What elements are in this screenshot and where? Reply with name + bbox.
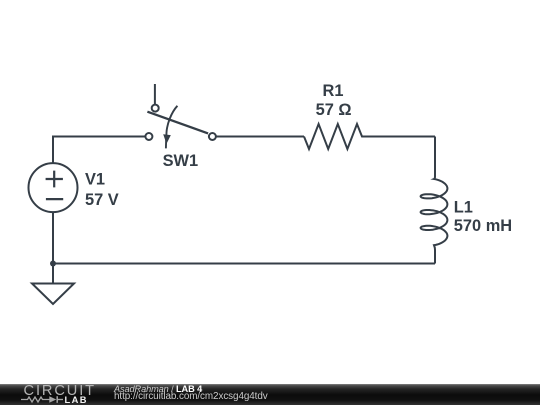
svg-text:SW1: SW1 xyxy=(163,152,199,170)
svg-text:570 mH: 570 mH xyxy=(454,217,512,235)
svg-text:57 Ω: 57 Ω xyxy=(316,101,352,119)
svg-text:57 V: 57 V xyxy=(85,191,119,209)
svg-text:L1: L1 xyxy=(454,198,473,216)
svg-text:R1: R1 xyxy=(323,82,344,100)
svg-text:V1: V1 xyxy=(85,171,105,189)
